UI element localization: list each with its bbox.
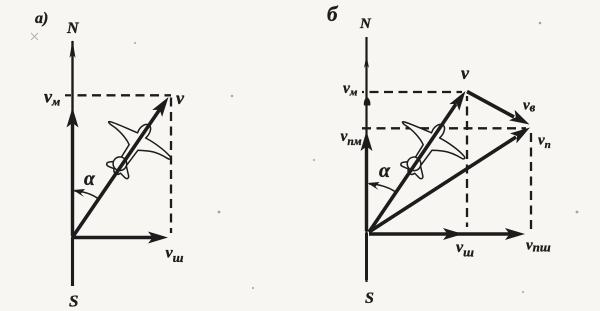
vector v (diagonal) xyxy=(73,94,173,237)
svg-text:vм: vм xyxy=(343,80,358,99)
dashed vertical below v tip xyxy=(466,96,468,227)
airplane (right) xyxy=(381,105,473,194)
airplane (left) xyxy=(87,105,179,194)
svg-text:vв: vв xyxy=(523,98,536,115)
svg-text:а): а) xyxy=(35,10,48,27)
svg-text:vм: vм xyxy=(44,87,60,109)
bottom horizontal double vector line xyxy=(369,232,514,235)
svg-text:б: б xyxy=(327,2,339,26)
axis N arrowhead (right) xyxy=(364,55,369,68)
vector v (diagonal, right) xyxy=(369,88,470,232)
svg-text:vш: vш xyxy=(166,245,184,266)
svg-text:v: v xyxy=(176,88,185,108)
svg-text:vп: vп xyxy=(538,133,551,152)
svg-text:N: N xyxy=(66,20,80,37)
dashed vertical below v_p tip xyxy=(530,133,532,229)
dashed horizontal v_m level xyxy=(362,91,462,93)
axis south tail (left) xyxy=(71,237,74,286)
vector v_sh arrowhead xyxy=(443,228,463,240)
angle arc alpha (right) xyxy=(368,182,397,193)
vector v_v (wind) xyxy=(467,92,532,130)
vector v_m (up along axis) xyxy=(67,108,79,237)
svg-text:vпм: vпм xyxy=(341,128,362,148)
svg-text:vпш: vпш xyxy=(526,238,551,255)
vector v_m remnant arrowhead on axis xyxy=(364,97,371,106)
svg-text:v: v xyxy=(461,63,470,83)
axis N arrowhead xyxy=(70,40,76,58)
dashed horizontal v_pm level xyxy=(362,127,526,129)
svg-text:α: α xyxy=(84,169,96,190)
svg-text:S: S xyxy=(69,292,78,311)
angle arc alpha xyxy=(73,189,100,200)
speckle marks xyxy=(31,22,578,293)
vector v_sh (horizontal) xyxy=(73,232,168,244)
svg-text:N: N xyxy=(359,16,372,32)
dashed horizontal top side xyxy=(73,94,171,96)
axis south tail (right) xyxy=(365,233,368,280)
svg-text:S: S xyxy=(365,290,374,307)
dash tick across axis at v_m level xyxy=(65,94,71,96)
svg-text:α: α xyxy=(379,160,391,182)
svg-text:vш: vш xyxy=(456,239,474,260)
axis N-S line xyxy=(71,41,73,286)
vector v_pm (up along axis) xyxy=(361,131,373,231)
axis N-S line (right) xyxy=(365,37,367,282)
vector v_p (ground speed) xyxy=(369,122,533,232)
vector v_psh arrowhead xyxy=(505,228,525,240)
dashed vertical right side xyxy=(170,98,172,234)
